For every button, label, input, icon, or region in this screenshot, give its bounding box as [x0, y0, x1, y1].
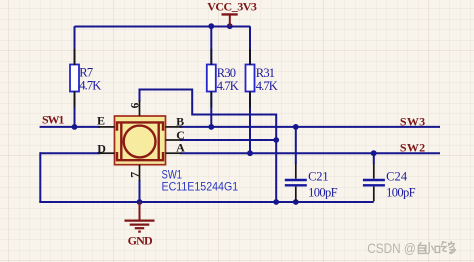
svg-text:SW3: SW3 [400, 115, 425, 129]
svg-text:SW1: SW1 [162, 169, 183, 182]
svg-text:SW1: SW1 [42, 113, 64, 127]
svg-text:4.7K: 4.7K [79, 79, 101, 93]
svg-text:C21: C21 [308, 170, 329, 184]
svg-text:4.7K: 4.7K [256, 79, 278, 93]
svg-text:R31: R31 [256, 66, 275, 80]
svg-text:CSDN @: CSDN @ [367, 241, 416, 256]
svg-text:6: 6 [130, 102, 142, 108]
svg-text:B: B [176, 114, 184, 128]
svg-text:SW2: SW2 [400, 140, 425, 154]
svg-text:R30: R30 [217, 66, 236, 80]
svg-text:EC11E15244G1: EC11E15244G1 [162, 181, 239, 194]
svg-text:GND: GND [128, 233, 153, 247]
svg-text:100pF: 100pF [308, 185, 338, 199]
svg-text:D: D [97, 142, 106, 156]
svg-text:R7: R7 [79, 66, 93, 80]
svg-text:VCC_3V3: VCC_3V3 [207, 0, 257, 13]
svg-text:100pF: 100pF [386, 185, 416, 199]
svg-text:4.7K: 4.7K [217, 79, 239, 93]
svg-text:C24: C24 [386, 170, 408, 184]
svg-text:A: A [176, 141, 185, 155]
svg-text:7: 7 [127, 172, 141, 178]
svg-text:E: E [97, 114, 105, 128]
